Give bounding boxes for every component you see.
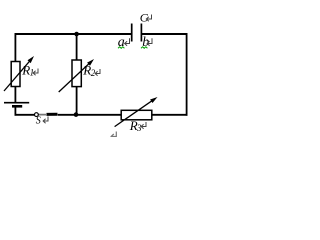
svg-text:3: 3 (136, 123, 142, 133)
svg-text:S: S (36, 116, 41, 127)
